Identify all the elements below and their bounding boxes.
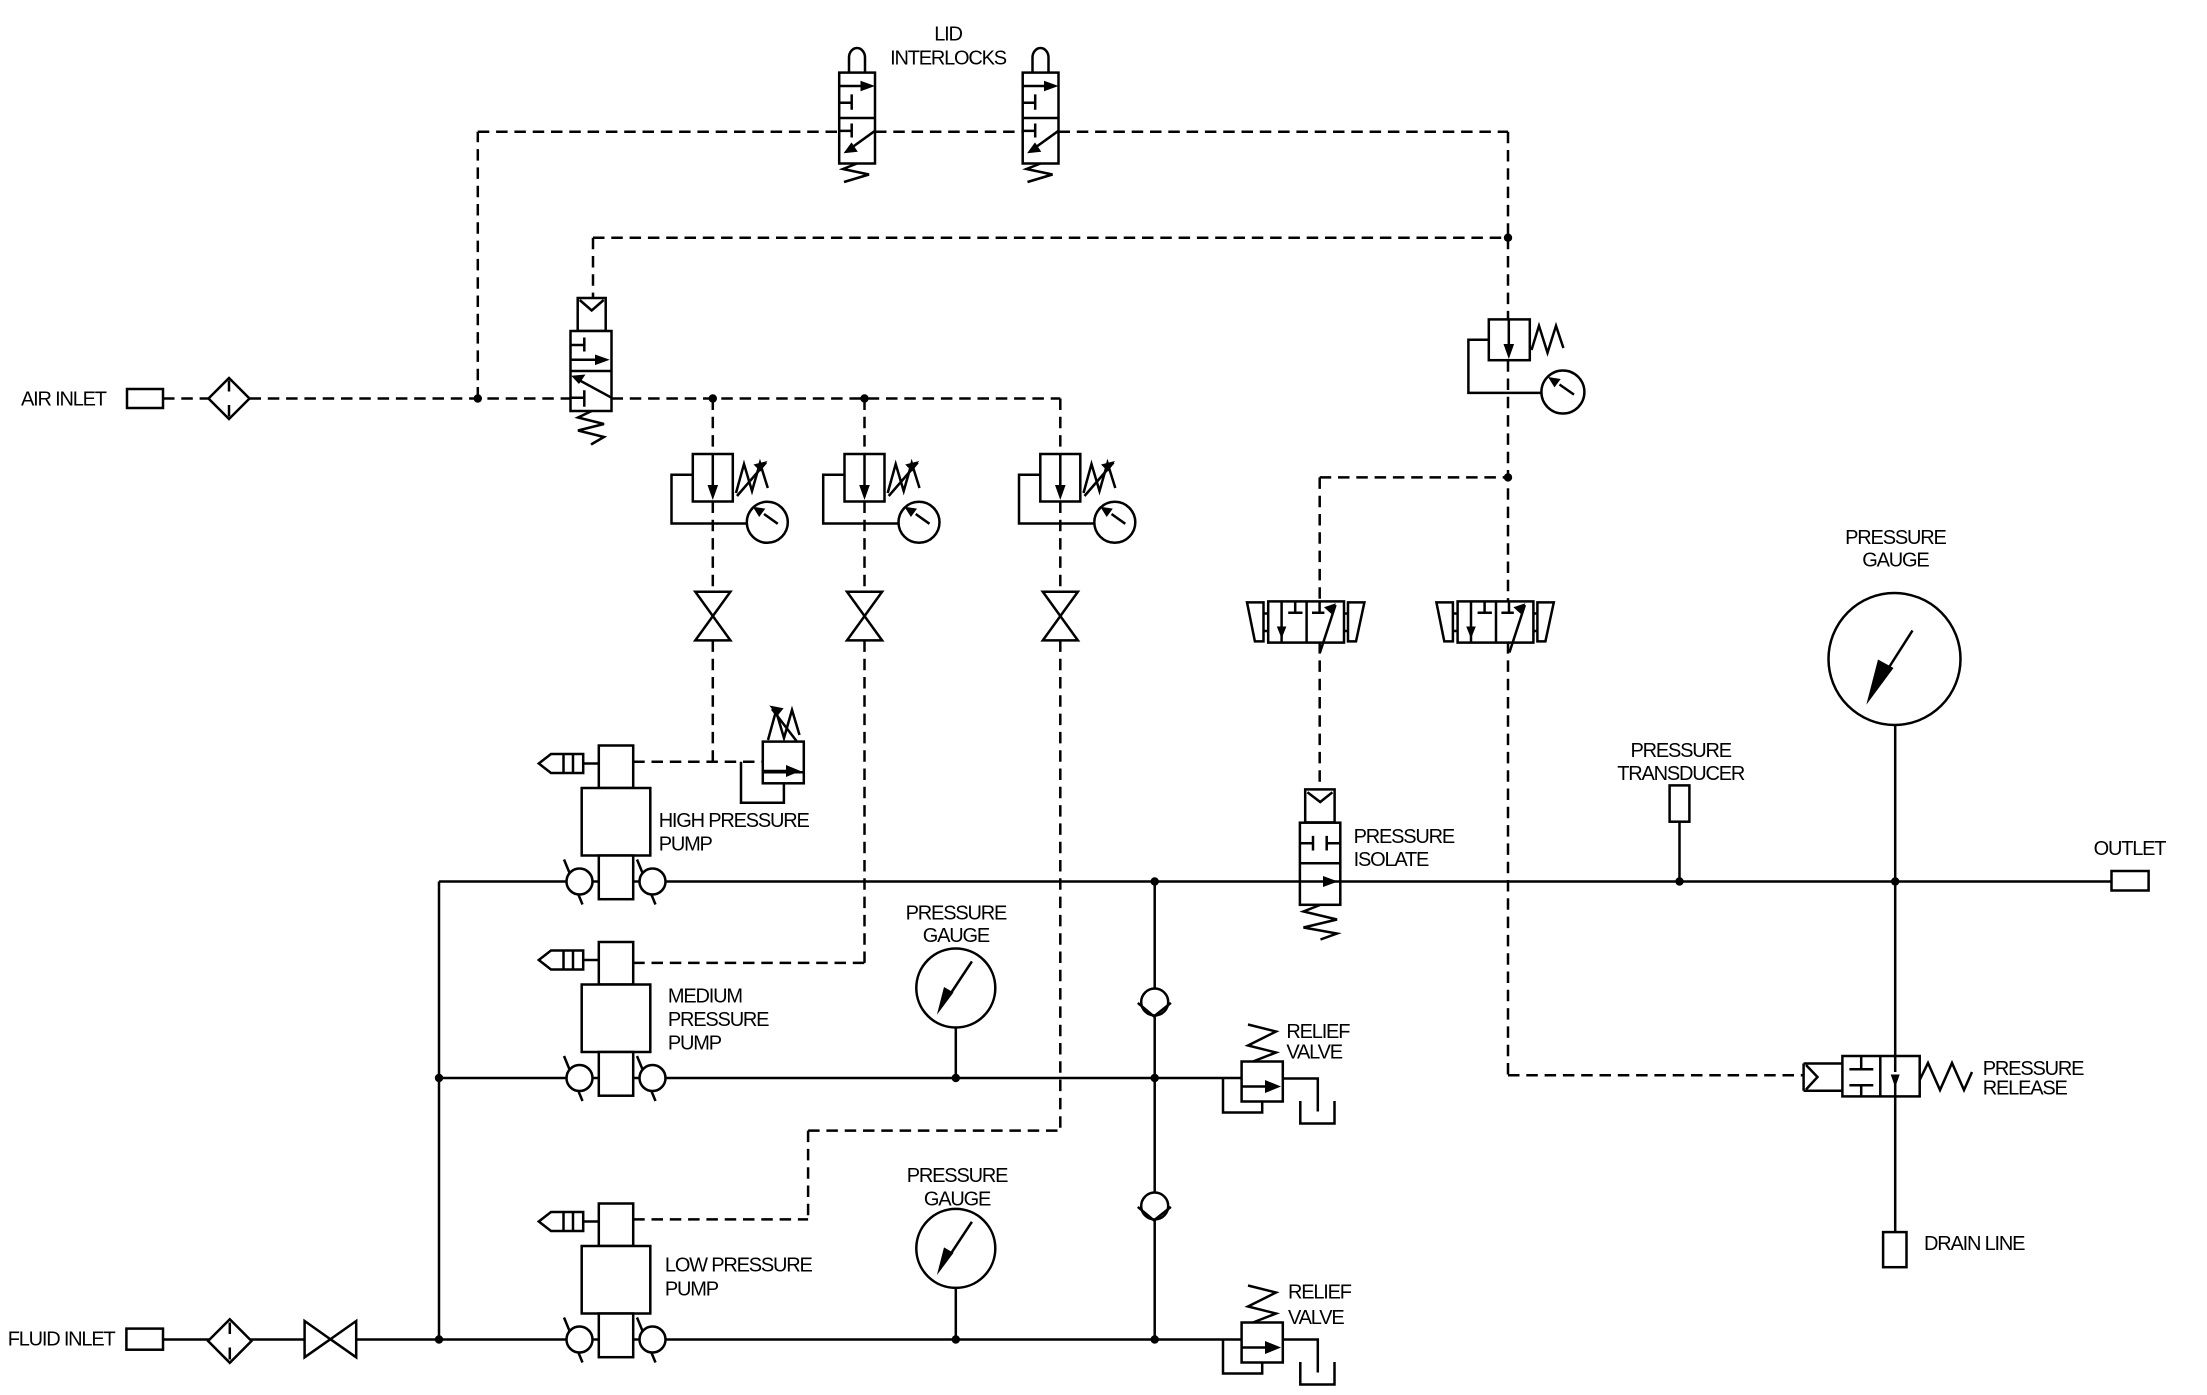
- svg-text:PRESSURE: PRESSURE: [668, 1009, 769, 1031]
- svg-text:GAUGE: GAUGE: [924, 1189, 991, 1211]
- svg-text:RELEASE: RELEASE: [1983, 1077, 2068, 1099]
- svg-text:PUMP: PUMP: [665, 1278, 719, 1300]
- svg-text:LOW PRESSURE: LOW PRESSURE: [665, 1255, 813, 1277]
- svg-text:MEDIUM: MEDIUM: [668, 986, 742, 1008]
- svg-text:RELIEF: RELIEF: [1286, 1021, 1350, 1043]
- svg-text:AIR INLET: AIR INLET: [21, 389, 107, 411]
- svg-text:VALVE: VALVE: [1286, 1041, 1342, 1063]
- svg-text:HIGH PRESSURE: HIGH PRESSURE: [659, 810, 810, 832]
- svg-text:VALVE: VALVE: [1288, 1307, 1344, 1329]
- svg-text:PUMP: PUMP: [668, 1033, 722, 1055]
- svg-text:RELIEF: RELIEF: [1288, 1281, 1352, 1303]
- svg-text:GAUGE: GAUGE: [923, 925, 990, 947]
- svg-text:GAUGE: GAUGE: [1862, 549, 1929, 571]
- svg-text:PRESSURE: PRESSURE: [906, 903, 1007, 925]
- svg-text:DRAIN LINE: DRAIN LINE: [1924, 1233, 2025, 1255]
- svg-text:ISOLATE: ISOLATE: [1354, 849, 1429, 871]
- svg-text:PRESSURE: PRESSURE: [1845, 527, 1946, 549]
- svg-text:PRESSURE: PRESSURE: [1354, 826, 1455, 848]
- svg-text:TRANSDUCER: TRANSDUCER: [1617, 763, 1745, 785]
- svg-text:INTERLOCKS: INTERLOCKS: [890, 48, 1007, 70]
- svg-text:FLUID INLET: FLUID INLET: [8, 1328, 116, 1350]
- svg-text:LID: LID: [934, 23, 962, 45]
- svg-text:PRESSURE: PRESSURE: [907, 1165, 1008, 1187]
- svg-text:OUTLET: OUTLET: [2094, 838, 2167, 860]
- svg-text:PUMP: PUMP: [659, 834, 713, 856]
- svg-text:PRESSURE: PRESSURE: [1630, 740, 1731, 762]
